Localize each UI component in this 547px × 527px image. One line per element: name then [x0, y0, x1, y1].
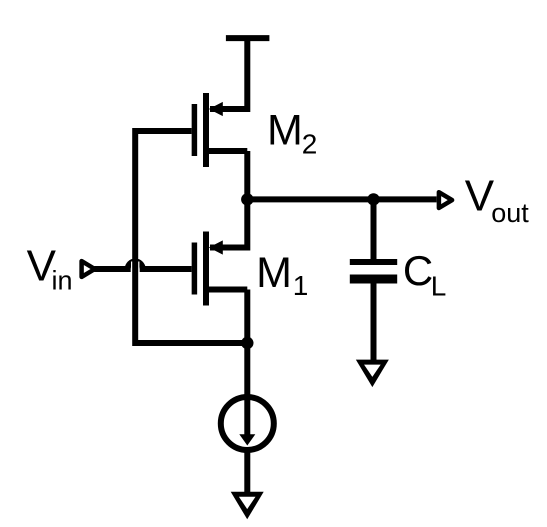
label Vout [465, 171, 530, 228]
label Vin [27, 241, 73, 295]
transistor M2 [194, 93, 247, 167]
svg-text:M: M [267, 106, 303, 154]
power rail VDD [226, 35, 270, 41]
terminal Vin [82, 261, 95, 277]
svg-text:2: 2 [302, 129, 318, 160]
wire M2 gate to tail node [135, 131, 247, 343]
transistor M1 [194, 232, 247, 306]
junction dot output node [241, 193, 253, 205]
wire M1 drain to output node [210, 199, 247, 247]
junction dot CL tap [367, 193, 379, 205]
label CL [403, 247, 446, 302]
label M2 [267, 106, 317, 159]
svg-text:out: out [491, 198, 529, 228]
wire CL bottom [371, 284, 377, 361]
wire M1 source to tail node [244, 290, 250, 344]
label M1 [256, 249, 308, 301]
svg-text:1: 1 [293, 270, 309, 301]
node output wire [247, 196, 436, 202]
terminal Vout [439, 192, 452, 208]
wire M2 drain to output node [244, 151, 250, 199]
ground below current source [231, 492, 264, 520]
ground below CL [356, 360, 389, 388]
capacitor CL [350, 262, 397, 279]
wire CL top [371, 199, 377, 262]
svg-text:M: M [256, 249, 292, 297]
wire Vin to M1 gate with hop [94, 262, 191, 273]
junction dot tail node [241, 337, 253, 349]
svg-text:L: L [431, 271, 447, 302]
wire M2 source to VDD [210, 38, 247, 109]
svg-text:in: in [52, 266, 73, 296]
svg-text:C: C [403, 247, 433, 294]
current source I1 [221, 343, 274, 492]
svg-text:V: V [465, 171, 495, 220]
